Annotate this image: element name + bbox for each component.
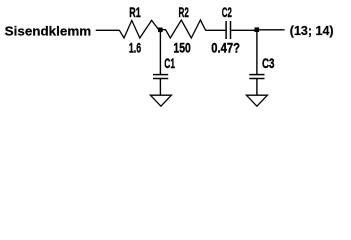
wire node B down to C3 [256, 32, 258, 74]
label C3 [262, 55, 275, 71]
label R2 [179, 4, 189, 20]
svg-text:R1: R1 [129, 4, 141, 20]
capacitor C1 [153, 75, 168, 79]
svg-text:Sisendklemm: Sisendklemm [5, 24, 92, 39]
svg-text:1.6: 1.6 [129, 39, 141, 55]
svg-text:C1: C1 [164, 55, 175, 71]
node (13; 14) output terminal label [290, 23, 334, 38]
junction node B (C2 / C3 / output) [255, 27, 260, 32]
value 1.6 (R1) [129, 39, 141, 55]
wire R2 to C2 [205, 29, 225, 31]
node Sisendklemm (input terminal label) [5, 24, 92, 39]
label R1 [129, 4, 141, 20]
label C2 [222, 4, 232, 20]
resistor R2 [163, 20, 206, 38]
junction node A (R1 / R2 / C1) [158, 28, 163, 33]
value 0.47? (C2) [211, 39, 240, 55]
resistor R1 [119, 20, 158, 38]
wire C3 to ground [256, 79, 258, 95]
label C1 [164, 55, 175, 71]
svg-text:R2: R2 [179, 4, 189, 20]
capacitor C3 [249, 75, 264, 79]
svg-text:C3: C3 [262, 55, 275, 71]
svg-text:150: 150 [173, 39, 191, 55]
value 150 (R2) [173, 39, 191, 55]
ground (under C3) [246, 95, 267, 106]
svg-text:0.47?: 0.47? [211, 39, 240, 55]
svg-text:C2: C2 [222, 4, 232, 20]
ground (under C1) [150, 95, 171, 106]
capacitor C2 [226, 21, 230, 39]
wire C2 to node B [231, 29, 254, 31]
wire input lead to R1 [96, 29, 120, 31]
wire C1 to ground [159, 79, 161, 95]
svg-text:(13; 14): (13; 14) [290, 23, 334, 38]
wire node B to output terminal [259, 29, 285, 31]
wire node A down to C1 [159, 32, 161, 74]
